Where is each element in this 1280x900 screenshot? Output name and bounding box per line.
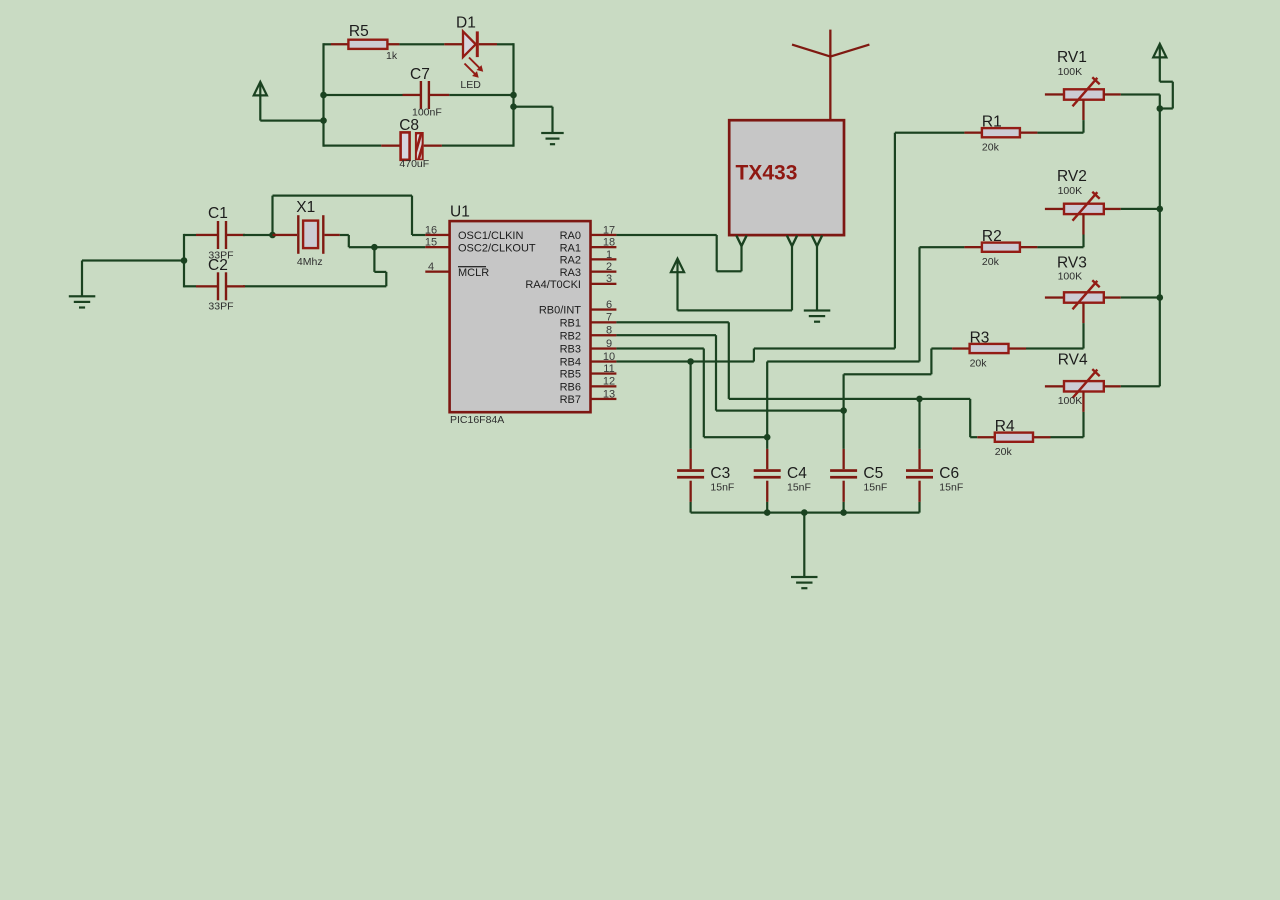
crystal X1	[273, 215, 349, 254]
label C6	[939, 465, 959, 482]
wire C1/C2 left rail	[183, 234, 185, 288]
pin 16 (OSC1/CLKIN) stub	[425, 224, 524, 242]
junction supply rail top	[1157, 105, 1164, 112]
resistor R4	[977, 433, 1050, 442]
wire right rail (vertical)	[512, 43, 514, 147]
wire R3 output to RV wiper	[1026, 347, 1084, 349]
wire C3 bottom	[690, 481, 692, 513]
wire C6 bottom	[918, 481, 920, 513]
pin 13 (RB7) stub	[560, 388, 617, 406]
wire ground bus (C3..C6)	[691, 512, 920, 514]
value 15nF (C3)	[710, 482, 734, 494]
pin 4 (MCLR) stub	[425, 261, 489, 279]
label C4	[787, 465, 807, 482]
wire ground to C1/C2 rail	[81, 259, 184, 296]
svg-text:RB6: RB6	[560, 382, 581, 394]
svg-text:RA3: RA3	[560, 267, 581, 279]
wire C2 row	[243, 285, 386, 287]
svg-text:RB4: RB4	[560, 357, 581, 369]
wire C5 top	[843, 411, 845, 470]
svg-text:R5: R5	[349, 23, 369, 40]
svg-text:6: 6	[606, 299, 612, 311]
value 15nF (C5)	[863, 482, 887, 494]
svg-text:18: 18	[603, 237, 615, 249]
wire C8 row left	[324, 145, 382, 147]
svg-text:100K: 100K	[1058, 185, 1083, 197]
wire left rail (vertical)	[322, 43, 324, 147]
capacitor C2	[196, 272, 245, 300]
power symbol VCC (TX433)	[671, 259, 684, 311]
svg-text:7: 7	[606, 312, 612, 324]
wire C1 row left	[184, 234, 196, 236]
svg-text:C5: C5	[863, 465, 883, 482]
svg-text:15nF: 15nF	[710, 482, 734, 494]
svg-text:16: 16	[425, 224, 437, 236]
svg-text:C6: C6	[939, 465, 959, 482]
pin 3 (RA4/T0CKI) stub	[525, 273, 616, 291]
wire RB1 net (pin 7 to R4/C6)	[616, 321, 977, 438]
capacitor C7	[403, 81, 450, 109]
wire C7 row right	[449, 94, 513, 96]
wire RV1 down to rail junction	[1159, 95, 1161, 109]
svg-text:C8: C8	[399, 117, 419, 134]
wire supply rail (vertical)	[1159, 109, 1161, 387]
wire power arrow to left rail	[260, 120, 323, 122]
label RV4	[1058, 352, 1088, 369]
svg-text:RA4/T0CKI: RA4/T0CKI	[525, 279, 581, 291]
TX433 pin 3	[812, 235, 822, 246]
svg-text:C2: C2	[208, 257, 228, 274]
wire RA0 to TX433 pin 1	[616, 234, 742, 273]
svg-text:X1: X1	[296, 199, 315, 216]
wire C2 row left	[184, 285, 196, 287]
label R3	[970, 329, 990, 346]
wire top row to R5	[324, 43, 332, 45]
label R4	[995, 418, 1015, 435]
svg-text:LED: LED	[460, 79, 481, 91]
svg-text:RB3: RB3	[560, 344, 581, 356]
capacitor C1	[196, 221, 245, 249]
label TX433	[736, 161, 798, 184]
power symbol VCC (top-left)	[254, 82, 267, 121]
svg-text:2: 2	[606, 261, 612, 273]
svg-text:15nF: 15nF	[863, 482, 887, 494]
svg-text:RV4: RV4	[1058, 352, 1088, 369]
pin 11 (RB5) stub	[560, 363, 617, 381]
value 33PF (C1)	[208, 250, 233, 262]
wire C5 bottom	[843, 481, 845, 513]
value 33PF (C2)	[208, 301, 233, 313]
diode D1 (LED)	[444, 31, 497, 77]
svg-text:OSC1/CLKIN: OSC1/CLKIN	[458, 230, 523, 242]
wire C8 row right	[442, 145, 514, 147]
wire C4 bottom	[766, 481, 768, 513]
value 20k (R1)	[982, 142, 1000, 154]
label C1	[208, 205, 228, 222]
value 100K (RV3)	[1058, 271, 1083, 283]
wire C7 row left	[324, 94, 403, 96]
pin 17 (RA0) stub	[560, 224, 617, 242]
wire OSC1 loop (up and over to pin 16)	[271, 195, 425, 237]
svg-text:470uF: 470uF	[399, 158, 429, 170]
wire to ground (top-left block)	[514, 106, 554, 133]
svg-text:33PF: 33PF	[208, 301, 233, 313]
svg-text:RA0: RA0	[560, 230, 581, 242]
capacitor C8 (electrolytic)	[381, 131, 442, 162]
label R1	[982, 114, 1002, 131]
svg-text:RV1: RV1	[1057, 49, 1087, 66]
junction RB4 net / C3	[687, 358, 694, 365]
capacitor C3	[677, 469, 704, 478]
wire X1 to OSC2 node	[348, 235, 375, 248]
value 20k (R4)	[995, 446, 1013, 458]
wire bus to ground	[803, 513, 805, 577]
wire R5 to D1	[399, 43, 444, 45]
junction RB1 net / C6	[916, 396, 923, 403]
value 15nF (C6)	[939, 482, 963, 494]
pin 18 (RA1) stub	[560, 237, 617, 255]
wire TX433 pin 3 to ground	[816, 246, 818, 311]
junction RB2 net / C5	[840, 407, 847, 414]
svg-text:10: 10	[603, 351, 615, 363]
TX433 pin 1	[736, 235, 746, 246]
value 1k	[386, 50, 398, 62]
junction rail / RV3	[1157, 294, 1164, 301]
svg-text:U1: U1	[450, 204, 470, 221]
wire RV1 to supply rail	[1121, 93, 1160, 95]
wiper wire RV2	[1082, 235, 1084, 248]
value 20k (R2)	[982, 256, 1000, 268]
label C2	[208, 257, 228, 274]
potentiometer RV4	[1045, 369, 1121, 412]
op-amp U1 body (PIC16F84A)	[450, 221, 591, 412]
wiper wire RV4	[1082, 412, 1084, 437]
svg-text:20k: 20k	[982, 142, 1000, 154]
label C3	[710, 465, 730, 482]
resistor R3	[952, 344, 1026, 353]
resistor R5	[331, 40, 400, 49]
junction RB3 net / C4	[764, 434, 771, 441]
pin 8 (RB2) stub	[560, 325, 617, 343]
wire TX433 pin 2 to power	[678, 246, 794, 312]
pin 1 (RA2) stub	[560, 249, 617, 267]
svg-text:15nF: 15nF	[787, 482, 811, 494]
svg-text:R2: R2	[982, 228, 1002, 245]
label D1	[456, 15, 476, 32]
ground symbol (top-left block)	[541, 132, 564, 145]
svg-text:1: 1	[606, 249, 612, 261]
wire R2 output to RV wiper	[1037, 246, 1083, 248]
wire RB4 net (pin 10 to R1/C3)	[616, 132, 964, 363]
wiper wire RV1	[1082, 120, 1084, 133]
value 100nF	[412, 107, 442, 119]
svg-text:15nF: 15nF	[939, 482, 963, 494]
pin 10 (RB4) stub	[560, 351, 617, 369]
value 15nF (C4)	[787, 482, 811, 494]
svg-text:C3: C3	[710, 465, 730, 482]
value 20k (R3)	[970, 357, 988, 369]
antenna	[792, 30, 869, 121]
svg-text:C1: C1	[208, 205, 228, 222]
junction left rail / power row	[320, 117, 327, 124]
svg-text:C7: C7	[410, 66, 430, 83]
potentiometer RV3	[1045, 280, 1121, 323]
value PIC16F84A	[450, 414, 504, 426]
svg-text:R1: R1	[982, 114, 1002, 131]
svg-text:17: 17	[603, 224, 615, 236]
svg-text:20k: 20k	[982, 256, 1000, 268]
wire C4 top	[766, 437, 768, 469]
svg-text:RA1: RA1	[560, 242, 581, 254]
junction right rail / C7 row	[510, 92, 517, 99]
pin 9 (RB3) stub	[560, 338, 617, 356]
wire node down to C2 row	[373, 247, 387, 286]
pin 7 (RB1) stub	[560, 312, 617, 330]
ground symbol (capacitor bank)	[791, 576, 818, 589]
label RV2	[1057, 168, 1087, 185]
capacitor C4	[754, 469, 781, 478]
pin 12 (RB6) stub	[560, 376, 617, 394]
value 100K (RV4)	[1058, 395, 1083, 407]
pin 6 (RB0/INT) stub	[539, 299, 617, 317]
value LED	[460, 79, 481, 91]
capacitor C6	[906, 469, 933, 478]
svg-text:RB5: RB5	[560, 369, 581, 381]
wire RV2 to supply rail	[1121, 208, 1160, 210]
junction bus / ground stem	[801, 509, 808, 516]
svg-text:RA2: RA2	[560, 255, 581, 267]
svg-text:RB2: RB2	[560, 330, 581, 342]
svg-text:100K: 100K	[1058, 66, 1083, 78]
wire RB3 net (pin 9 to R2/C4)	[616, 246, 964, 438]
svg-text:100K: 100K	[1058, 395, 1083, 407]
label U1	[450, 204, 470, 221]
wire RV4 to supply rail	[1121, 385, 1160, 387]
svg-text:RB1: RB1	[560, 318, 581, 330]
svg-text:3: 3	[606, 273, 612, 285]
wire node to pin 15	[374, 246, 425, 248]
module TX433	[729, 120, 844, 235]
ground symbol (crystal block)	[69, 295, 96, 308]
wire D1 to right rail	[497, 43, 514, 45]
resistor R2	[964, 243, 1037, 252]
resistor R1	[964, 128, 1037, 137]
junction bus / C5	[840, 509, 847, 516]
svg-text:C4: C4	[787, 465, 807, 482]
junction C1/X1/OSC1 node	[269, 232, 276, 239]
svg-text:D1: D1	[456, 15, 476, 32]
TX433 pin 2	[787, 235, 797, 246]
wire R4 output to RV wiper	[1051, 436, 1084, 438]
value 4Mhz	[297, 256, 323, 268]
label RV1	[1057, 49, 1087, 66]
svg-text:RV2: RV2	[1057, 168, 1087, 185]
pin 15 (OSC2/CLKOUT) stub	[425, 237, 536, 255]
svg-text:4Mhz: 4Mhz	[297, 256, 323, 268]
svg-text:100K: 100K	[1058, 271, 1083, 283]
wire RB2 net (pin 8 to R3/C5)	[616, 334, 952, 412]
label C7	[410, 66, 430, 83]
junction rail / RV2	[1157, 206, 1164, 213]
svg-text:OSC2/CLKOUT: OSC2/CLKOUT	[458, 242, 536, 254]
capacitor C5	[830, 469, 857, 478]
svg-text:9: 9	[606, 338, 612, 350]
wire C3 top	[690, 362, 692, 470]
junction X1/OSC2/C2 node	[371, 244, 378, 251]
pin 2 (RA3) stub	[560, 261, 617, 279]
junction bus / C4	[764, 509, 771, 516]
label RV3	[1057, 255, 1087, 272]
label R2	[982, 228, 1002, 245]
value 100K (RV1)	[1058, 66, 1083, 78]
svg-text:4: 4	[428, 261, 434, 273]
value 470uF	[399, 158, 429, 170]
potentiometer RV2	[1045, 192, 1121, 235]
label C5	[863, 465, 883, 482]
potentiometer RV1	[1045, 77, 1121, 120]
svg-text:1k: 1k	[386, 50, 398, 62]
wiper wire RV3	[1082, 323, 1084, 348]
svg-text:RB0/INT: RB0/INT	[539, 305, 581, 317]
wire power jog to rail	[1160, 81, 1174, 110]
svg-text:15: 15	[425, 237, 437, 249]
svg-text:RB7: RB7	[560, 394, 581, 406]
svg-text:11: 11	[603, 363, 614, 375]
svg-text:20k: 20k	[995, 446, 1013, 458]
label X1	[296, 199, 315, 216]
label R5	[349, 23, 369, 40]
junction left rail / C7 row	[320, 92, 327, 99]
svg-text:8: 8	[606, 325, 612, 337]
value 100K (RV2)	[1058, 185, 1083, 197]
svg-text:12: 12	[603, 376, 615, 388]
ground symbol (TX433)	[804, 309, 831, 322]
svg-text:R3: R3	[970, 329, 990, 346]
svg-text:MCLR: MCLR	[458, 267, 489, 279]
svg-text:R4: R4	[995, 418, 1015, 435]
svg-text:20k: 20k	[970, 357, 988, 369]
label C8	[399, 117, 419, 134]
wire C1 to X1 node	[243, 234, 273, 236]
wire C6 top	[918, 399, 920, 469]
power symbol VCC (right rail)	[1153, 44, 1166, 82]
svg-text:13: 13	[603, 388, 615, 400]
wire R1 output to RV wiper	[1037, 132, 1083, 134]
wire RV3 to supply rail	[1121, 296, 1160, 298]
svg-text:PIC16F84A: PIC16F84A	[450, 414, 504, 426]
svg-text:RV3: RV3	[1057, 255, 1087, 272]
svg-text:TX433: TX433	[736, 161, 798, 184]
junction rail / ground wire	[181, 257, 188, 264]
junction right rail / ground branch	[510, 103, 517, 110]
